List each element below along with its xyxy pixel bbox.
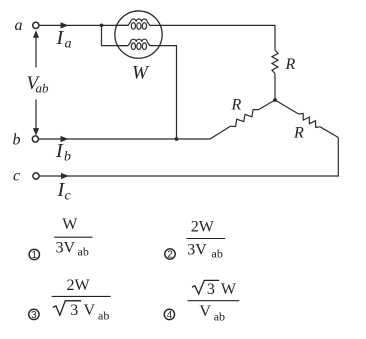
svg-text:ab: ab: [212, 247, 223, 261]
svg-text:ab: ab: [98, 308, 109, 322]
svg-text:b: b: [64, 150, 71, 165]
svg-text:R: R: [231, 97, 242, 114]
svg-text:c: c: [65, 188, 72, 203]
svg-text:2W: 2W: [67, 277, 91, 294]
svg-text:W: W: [62, 216, 78, 233]
svg-text:2: 2: [167, 250, 173, 261]
svg-text:I: I: [55, 140, 64, 162]
svg-text:W: W: [132, 63, 150, 84]
svg-text:R: R: [285, 56, 296, 73]
svg-text:ab: ab: [78, 245, 89, 259]
svg-text:1: 1: [32, 250, 38, 261]
svg-text:2W: 2W: [191, 218, 215, 235]
svg-text:4: 4: [167, 310, 173, 321]
svg-text:3: 3: [70, 302, 78, 319]
svg-text:V: V: [84, 302, 96, 319]
svg-text:ab: ab: [36, 81, 50, 96]
svg-text:b: b: [13, 131, 21, 148]
svg-text:ab: ab: [214, 309, 225, 323]
svg-text:a: a: [15, 17, 23, 34]
svg-text:a: a: [65, 37, 72, 52]
svg-text:3: 3: [31, 310, 37, 321]
svg-text:3V: 3V: [56, 240, 76, 257]
svg-text:V: V: [199, 303, 211, 320]
svg-text:R: R: [293, 125, 304, 142]
svg-text:3V: 3V: [187, 241, 207, 258]
svg-text:W: W: [221, 281, 237, 298]
svg-text:3: 3: [207, 281, 215, 298]
svg-text:c: c: [13, 167, 20, 184]
svg-text:I: I: [56, 27, 65, 49]
